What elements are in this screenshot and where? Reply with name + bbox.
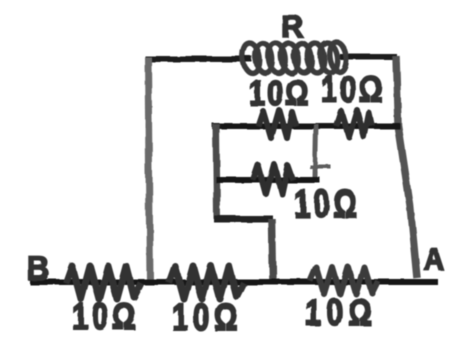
svg-text:10Ω: 10Ω xyxy=(305,293,377,334)
svg-text:A: A xyxy=(424,243,444,278)
svg-text:10Ω: 10Ω xyxy=(321,70,385,111)
svg-text:10Ω: 10Ω xyxy=(249,73,310,112)
svg-text:10Ω: 10Ω xyxy=(294,183,360,226)
svg-text:B: B xyxy=(27,250,49,288)
svg-text:10Ω: 10Ω xyxy=(172,297,243,338)
svg-text:R: R xyxy=(281,9,303,44)
svg-text:10Ω: 10Ω xyxy=(72,297,139,338)
